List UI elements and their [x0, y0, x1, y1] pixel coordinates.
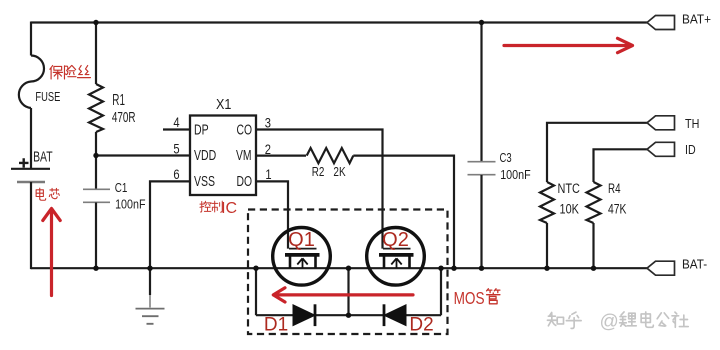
svg-text:X1: X1: [216, 95, 232, 112]
svg-text:MOS: MOS: [454, 289, 485, 308]
svg-text:BAT: BAT: [33, 148, 53, 165]
svg-text:BAT+: BAT+: [682, 12, 711, 27]
svg-text:2K: 2K: [333, 165, 345, 180]
svg-text:R1: R1: [112, 91, 125, 109]
svg-text:VM: VM: [236, 146, 252, 163]
svg-text:@: @: [600, 312, 619, 333]
svg-text:Q2: Q2: [382, 229, 409, 251]
svg-text:100nF: 100nF: [500, 168, 530, 182]
svg-text:FUSE: FUSE: [35, 91, 60, 105]
svg-text:C1: C1: [115, 182, 128, 196]
svg-text:4: 4: [173, 115, 179, 130]
svg-text:470R: 470R: [112, 109, 136, 126]
svg-text:D2: D2: [409, 315, 433, 336]
svg-text:10K: 10K: [560, 201, 580, 217]
svg-text:R4: R4: [608, 180, 621, 196]
svg-text:1: 1: [265, 167, 271, 182]
svg-text:3: 3: [265, 115, 271, 130]
svg-text:100nF: 100nF: [115, 197, 145, 212]
svg-text:6: 6: [173, 167, 179, 182]
svg-text:BAT-: BAT-: [682, 257, 707, 272]
svg-text:C3: C3: [500, 152, 512, 166]
svg-text:NTC: NTC: [558, 181, 580, 197]
svg-text:IC: IC: [221, 200, 237, 217]
svg-text:47K: 47K: [608, 201, 627, 217]
svg-text:5: 5: [173, 141, 179, 156]
svg-text:DO: DO: [237, 172, 253, 189]
svg-text:CO: CO: [237, 120, 253, 137]
svg-text:VSS: VSS: [194, 172, 215, 189]
svg-text:ID: ID: [685, 142, 696, 157]
svg-text:2: 2: [265, 142, 271, 157]
svg-text:R2: R2: [312, 166, 325, 180]
svg-text:Q1: Q1: [288, 229, 315, 251]
svg-text:D1: D1: [264, 315, 288, 336]
svg-text:VDD: VDD: [194, 146, 216, 163]
svg-text:DP: DP: [194, 120, 209, 137]
svg-text:TH: TH: [685, 116, 699, 131]
